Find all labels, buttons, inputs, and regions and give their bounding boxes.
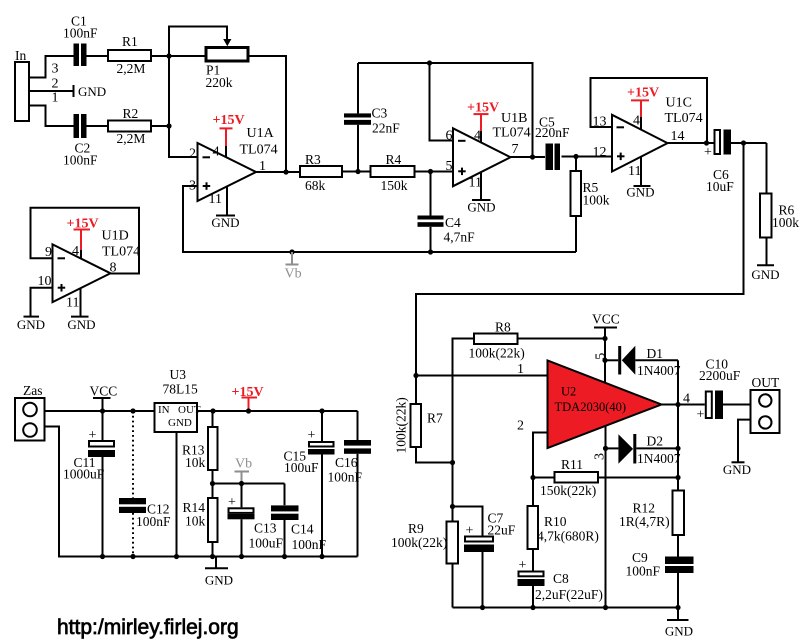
connector OUT bbox=[751, 375, 780, 433]
svg-text:2,2M: 2,2M bbox=[117, 131, 146, 146]
node C5/R5/pin12 bbox=[573, 154, 578, 159]
resistor R12 bbox=[619, 491, 684, 557]
ground U1B pin 11 bbox=[467, 172, 495, 215]
wire R1 to node A bbox=[151, 55, 169, 57]
connector In bbox=[15, 48, 59, 121]
node pin2/R11/R10 bbox=[530, 475, 535, 480]
wire U1C output bbox=[668, 142, 714, 144]
svg-text:+: + bbox=[519, 558, 527, 573]
capacitor C14 bbox=[271, 484, 327, 560]
svg-text:U1C: U1C bbox=[666, 96, 692, 111]
svg-text:2: 2 bbox=[189, 147, 196, 162]
resistor R1 bbox=[108, 34, 151, 76]
svg-text:22uF: 22uF bbox=[488, 523, 516, 538]
op-amp U1B bbox=[446, 111, 531, 191]
svg-text:+: + bbox=[704, 145, 712, 160]
svg-text:100uF: 100uF bbox=[249, 536, 284, 551]
wire node A to P1 left bbox=[169, 55, 206, 57]
capacitor C5 bbox=[535, 115, 570, 171]
svg-text:1000uF: 1000uF bbox=[63, 467, 105, 482]
node C4 on Vb rail bbox=[428, 249, 433, 254]
ground U1D pin 10 bbox=[17, 317, 45, 332]
svg-text:4,7k(680R): 4,7k(680R) bbox=[537, 529, 599, 544]
svg-text:R1: R1 bbox=[122, 34, 138, 49]
svg-text:11: 11 bbox=[209, 192, 222, 207]
svg-text:R2: R2 bbox=[123, 106, 139, 121]
node D1 branch bbox=[602, 358, 607, 363]
capacitor C13 bbox=[228, 484, 284, 560]
svg-text:1N4007: 1N4007 bbox=[637, 451, 681, 466]
node R7/R8 bbox=[450, 460, 455, 465]
svg-text:GND: GND bbox=[751, 267, 779, 282]
wire In pin 3 to C1 bbox=[29, 56, 74, 78]
wire U1D feedback box bbox=[31, 208, 140, 274]
ground R6 bbox=[751, 265, 779, 282]
svg-text:C4: C4 bbox=[445, 215, 461, 230]
power flag +15V U1C bbox=[627, 86, 659, 131]
svg-text:OUT: OUT bbox=[178, 404, 201, 416]
capacitor C16 bbox=[328, 411, 372, 557]
svg-text:4,7nF: 4,7nF bbox=[444, 230, 476, 245]
svg-text:78L15: 78L15 bbox=[163, 382, 198, 397]
node R13/R14 bbox=[210, 481, 215, 486]
svg-text:10uF: 10uF bbox=[706, 179, 734, 194]
svg-text:GND: GND bbox=[205, 573, 233, 588]
wire C2 to R2 bbox=[87, 125, 109, 127]
svg-text:Vb: Vb bbox=[285, 267, 302, 282]
node C6 output bbox=[741, 140, 746, 145]
svg-text:5: 5 bbox=[446, 159, 453, 174]
svg-text:12: 12 bbox=[593, 145, 607, 160]
wire node A up to P1 wiper bbox=[169, 27, 227, 57]
svg-text:3: 3 bbox=[592, 453, 607, 460]
svg-text:R9: R9 bbox=[408, 521, 424, 536]
node U3 out bbox=[210, 408, 215, 413]
wire C1 to R1 bbox=[87, 55, 109, 57]
svg-text:In: In bbox=[15, 48, 26, 63]
svg-text:2200uF: 2200uF bbox=[699, 368, 741, 383]
capacitor C10 bbox=[697, 357, 752, 423]
power flag VCC bbox=[90, 384, 118, 414]
svg-text:100nF: 100nF bbox=[328, 470, 363, 485]
svg-text:14: 14 bbox=[671, 129, 685, 144]
regulator U3 78L15 bbox=[155, 367, 201, 559]
wire C5 to U1C pin 12 bbox=[562, 156, 613, 158]
capacitor C4 bbox=[418, 172, 476, 253]
svg-text:7: 7 bbox=[512, 142, 519, 157]
svg-text:+: + bbox=[697, 408, 705, 423]
node A bbox=[166, 53, 171, 58]
svg-text:11: 11 bbox=[66, 296, 79, 311]
svg-text:68k: 68k bbox=[305, 178, 326, 193]
ground In pin 2 bbox=[29, 84, 106, 99]
wire U2 output bbox=[662, 404, 705, 406]
svg-text:4: 4 bbox=[683, 392, 690, 407]
svg-text:TL074: TL074 bbox=[493, 126, 531, 141]
node amplifier input bbox=[413, 373, 418, 378]
svg-text:4: 4 bbox=[72, 244, 79, 259]
svg-text:150k: 150k bbox=[381, 178, 408, 193]
svg-text:GND: GND bbox=[168, 417, 192, 429]
node B bbox=[166, 123, 171, 128]
svg-text:100k(22k): 100k(22k) bbox=[394, 397, 409, 453]
svg-text:150k(22k): 150k(22k) bbox=[540, 483, 596, 498]
svg-text:GND: GND bbox=[467, 200, 495, 215]
svg-text:1R(4,7R): 1R(4,7R) bbox=[619, 514, 670, 529]
wire Vb rail 2 bbox=[213, 483, 285, 485]
svg-text:GND: GND bbox=[67, 317, 95, 332]
node R9/C7 bbox=[450, 504, 455, 509]
ground U1D pin 11 bbox=[67, 288, 95, 332]
resistor R6 bbox=[760, 143, 799, 265]
wire U1B feedback rail bbox=[358, 63, 533, 157]
svg-text:+: + bbox=[228, 495, 236, 510]
wire R2 to node B bbox=[151, 125, 169, 127]
ground OUT bbox=[723, 420, 751, 477]
wire VCC rail bbox=[45, 410, 358, 412]
svg-text:GND: GND bbox=[78, 84, 106, 99]
resistor R4 bbox=[371, 152, 415, 193]
ground U1C pin 11 bbox=[626, 157, 654, 200]
node R11/R12/output bbox=[675, 475, 680, 480]
svg-text:TL074: TL074 bbox=[665, 111, 703, 126]
svg-text:2,2M: 2,2M bbox=[117, 61, 146, 76]
capacitor C11 bbox=[63, 411, 115, 559]
power flag +15V U1B bbox=[467, 101, 499, 143]
power flag +15V U1D bbox=[67, 217, 99, 259]
resistor R2 bbox=[108, 106, 151, 146]
power flag VCC (amp) bbox=[592, 312, 620, 342]
node R3/R4/C3 bbox=[355, 169, 360, 174]
resistor R14 bbox=[183, 484, 218, 560]
svg-text:GND: GND bbox=[211, 215, 239, 230]
node U1C output/feedback bbox=[704, 140, 709, 145]
svg-text:C14: C14 bbox=[291, 522, 314, 537]
capacitor C1 bbox=[63, 14, 98, 67]
capacitor C8 bbox=[518, 558, 603, 610]
svg-text:R4: R4 bbox=[386, 152, 402, 167]
svg-text:R10: R10 bbox=[544, 514, 567, 529]
capacitor C15 bbox=[284, 408, 335, 559]
svg-text:100k(22k): 100k(22k) bbox=[469, 346, 525, 361]
svg-text:4: 4 bbox=[474, 129, 481, 144]
power flag Vb (supply) bbox=[235, 457, 253, 487]
svg-text:GND: GND bbox=[17, 317, 45, 332]
power flag +15V bbox=[232, 385, 264, 414]
wire P1 right down to U1A output node bbox=[248, 56, 286, 172]
node R4/C4/pin5 bbox=[428, 169, 433, 174]
svg-text:U1D: U1D bbox=[102, 229, 129, 244]
wire to U2 pin 1 bbox=[416, 375, 548, 377]
wire U1A pin 3 down to Vb rail bbox=[183, 186, 198, 252]
svg-text:C16: C16 bbox=[335, 455, 358, 470]
svg-text:VCC: VCC bbox=[592, 312, 620, 327]
svg-text:+: + bbox=[89, 428, 97, 443]
wire amp ground rail bbox=[453, 607, 679, 609]
op-amp U1C bbox=[593, 96, 703, 180]
svg-text:U1B: U1B bbox=[501, 111, 527, 126]
node output bbox=[675, 402, 680, 407]
svg-text:TL074: TL074 bbox=[102, 245, 140, 260]
svg-text:U3: U3 bbox=[170, 367, 187, 382]
potentiometer P1 bbox=[206, 39, 249, 90]
svg-text:220k: 220k bbox=[206, 75, 233, 90]
wire U1B output bbox=[511, 156, 546, 158]
node pin3 on ground rail bbox=[603, 605, 608, 610]
wire output down bbox=[677, 405, 679, 491]
wire Zas pin 2 down to ground rail bbox=[45, 427, 358, 557]
svg-text:100k: 100k bbox=[772, 215, 799, 230]
ground amp rail bbox=[665, 605, 693, 639]
svg-text:GND: GND bbox=[723, 462, 751, 477]
svg-text:100nF: 100nF bbox=[626, 564, 661, 579]
svg-text:11: 11 bbox=[469, 176, 482, 191]
svg-text:6: 6 bbox=[446, 129, 453, 144]
resistor R7 bbox=[394, 376, 453, 463]
svg-text:+15V: +15V bbox=[627, 86, 659, 101]
capacitor C2 bbox=[63, 114, 98, 168]
svg-text:22nF: 22nF bbox=[372, 121, 400, 136]
svg-text:2: 2 bbox=[517, 419, 524, 434]
wire C6 node down to amplifier input bbox=[416, 143, 744, 376]
svg-text:D2: D2 bbox=[647, 434, 664, 449]
wire U2 pin 2 bbox=[533, 433, 548, 478]
ground power rail bbox=[205, 557, 233, 588]
resistor R10 bbox=[528, 478, 599, 571]
resistor R8 bbox=[453, 320, 606, 507]
diode D1 bbox=[605, 346, 681, 405]
svg-text:Vb: Vb bbox=[235, 457, 252, 472]
svg-text:3: 3 bbox=[52, 62, 59, 77]
svg-text:C13: C13 bbox=[254, 521, 277, 536]
svg-text:R7: R7 bbox=[427, 411, 443, 426]
svg-text:1N4007: 1N4007 bbox=[637, 363, 681, 378]
svg-text:+: + bbox=[308, 428, 316, 443]
wire U1C feedback box bbox=[591, 78, 708, 143]
svg-text:OUT: OUT bbox=[752, 375, 780, 390]
svg-text:C8: C8 bbox=[553, 571, 569, 586]
wire to U1B pin 6 bbox=[430, 63, 454, 141]
svg-text:R8: R8 bbox=[495, 320, 511, 335]
svg-text:TL074: TL074 bbox=[240, 143, 278, 158]
wire C6 right bbox=[731, 142, 767, 144]
svg-text:D1: D1 bbox=[647, 346, 664, 361]
svg-text:100nF: 100nF bbox=[63, 26, 98, 41]
svg-text:IN: IN bbox=[158, 404, 170, 416]
svg-text:100nF: 100nF bbox=[63, 153, 98, 168]
capacitor C7 bbox=[453, 507, 516, 611]
svg-text:U1A: U1A bbox=[247, 126, 275, 141]
svg-text:4: 4 bbox=[633, 114, 640, 129]
power flag Vb (middle) bbox=[285, 249, 302, 281]
capacitor C6 bbox=[704, 130, 734, 195]
resistor R13 bbox=[182, 411, 218, 484]
resistor R11 bbox=[533, 457, 678, 498]
svg-text:10k: 10k bbox=[185, 514, 206, 529]
svg-text:R11: R11 bbox=[561, 457, 583, 472]
wire U1D pin 10 bbox=[31, 288, 53, 317]
op-amp U1D bbox=[38, 229, 141, 311]
svg-text:U2: U2 bbox=[561, 385, 576, 399]
svg-text:2: 2 bbox=[52, 77, 59, 92]
resistor R9 bbox=[391, 463, 458, 608]
resistor R5 bbox=[571, 157, 610, 253]
capacitor C3 bbox=[344, 63, 400, 172]
svg-text:10k: 10k bbox=[185, 455, 206, 470]
svg-text:Zas: Zas bbox=[23, 383, 43, 398]
svg-text:100nF: 100nF bbox=[136, 514, 171, 529]
svg-text:100k(22k): 100k(22k) bbox=[391, 535, 447, 550]
node feedback/pin6 bbox=[427, 60, 432, 65]
svg-text:11: 11 bbox=[628, 164, 641, 179]
node U1B output bbox=[530, 154, 535, 159]
svg-text:4: 4 bbox=[213, 145, 220, 160]
capacitor C12 bbox=[119, 408, 171, 559]
svg-text:100k: 100k bbox=[583, 193, 610, 208]
wire In pin 1 to C2 bbox=[29, 106, 74, 127]
resistor R3 bbox=[300, 152, 342, 193]
svg-text:220nF: 220nF bbox=[535, 125, 570, 140]
svg-text:+: + bbox=[466, 524, 474, 539]
wire node A down to U1A pin 2 bbox=[169, 56, 198, 157]
amplifier U2 TDA2030 bbox=[548, 361, 662, 449]
capacitor C9 bbox=[626, 550, 694, 608]
wire R3 to R4 bbox=[342, 171, 371, 173]
svg-text:C3: C3 bbox=[372, 106, 388, 121]
ground U1A pin 11 bbox=[211, 187, 239, 231]
Vb rail wire bbox=[182, 251, 576, 253]
wire U1A output bbox=[256, 171, 300, 173]
svg-text:1: 1 bbox=[517, 362, 524, 377]
svg-text:http:/mirley.firlej.org: http:/mirley.firlej.org bbox=[57, 616, 239, 639]
svg-text:R3: R3 bbox=[305, 152, 321, 167]
node D2/output bbox=[675, 446, 680, 451]
wire U2 pin 3 to ground rail bbox=[605, 426, 607, 607]
svg-text:100uF: 100uF bbox=[284, 460, 319, 475]
connector Zas bbox=[15, 383, 45, 441]
node U1A output bbox=[283, 169, 288, 174]
op-amp U1A bbox=[189, 126, 278, 207]
svg-text:TDA2030(40): TDA2030(40) bbox=[555, 400, 627, 414]
svg-text:GND: GND bbox=[665, 624, 693, 639]
svg-text:VCC: VCC bbox=[90, 384, 118, 399]
wire VCC to U2 pin 5 bbox=[604, 339, 606, 384]
svg-text:GND: GND bbox=[626, 185, 654, 200]
diode D2 bbox=[606, 434, 681, 467]
node D2 branch bbox=[603, 446, 608, 451]
wire R4 to U1B pin 5 bbox=[415, 171, 454, 173]
svg-text:+15V: +15V bbox=[213, 113, 245, 128]
svg-text:2,2uF(22uF): 2,2uF(22uF) bbox=[535, 587, 603, 602]
power flag +15V U1A bbox=[213, 113, 245, 157]
svg-text:1: 1 bbox=[52, 91, 59, 106]
